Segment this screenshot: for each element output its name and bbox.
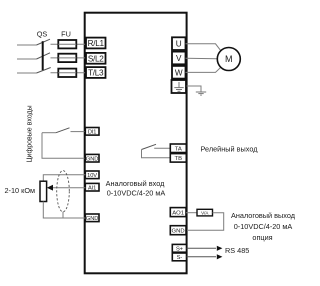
fuse FU1	[58, 40, 76, 48]
wire 10V to pot top	[43, 175, 85, 181]
svg-text:2-10 кОм: 2-10 кОм	[5, 186, 36, 195]
svg-text:M: M	[225, 54, 233, 64]
terminal T/L3	[86, 67, 106, 78]
potentiometer body	[40, 181, 47, 201]
svg-text:S/L2: S/L2	[88, 54, 104, 63]
pot wiper arrow	[47, 185, 53, 191]
svg-text:RS 485: RS 485	[225, 246, 249, 255]
svg-text:Аналоговый вход: Аналоговый вход	[106, 179, 165, 188]
svg-text:GND: GND	[172, 229, 185, 235]
svg-text:0-10VDC/4-20 мА: 0-10VDC/4-20 мА	[107, 188, 166, 197]
svg-text:опция: опция	[252, 233, 272, 242]
label RS 485	[225, 246, 249, 255]
earth ground symbol	[196, 92, 206, 95]
wire fuse row 2	[51, 57, 86, 59]
terminal GND 3	[170, 226, 186, 235]
label QS	[37, 29, 48, 38]
wire DI1 to GND	[42, 133, 86, 159]
switch DI1 blade	[56, 128, 70, 133]
wire S- RS485	[187, 256, 217, 258]
svg-text:V/A: V/A	[201, 210, 208, 215]
svg-text:S-: S-	[177, 255, 183, 261]
switch QS blade 3	[37, 68, 51, 74]
svg-text:Аналоговый выход: Аналоговый выход	[231, 211, 296, 220]
svg-text:TA: TA	[175, 147, 182, 153]
wire V/A to GND	[187, 213, 224, 231]
wire phase 3 left	[17, 72, 37, 74]
label analog output line 3	[252, 233, 272, 242]
svg-text:GND: GND	[86, 216, 98, 222]
terminal PE earth box	[172, 80, 187, 93]
wire relay common to TB	[142, 150, 171, 158]
shield drain wire	[62, 212, 64, 218]
wire V to motor	[186, 57, 218, 59]
wire fuse row 3	[51, 72, 86, 74]
terminal GND 2	[85, 214, 99, 222]
svg-text:W: W	[175, 68, 183, 77]
label analog input line 2	[107, 188, 166, 197]
terminal S+	[172, 244, 186, 252]
fuse FU2	[58, 54, 76, 62]
svg-text:FU: FU	[61, 29, 71, 38]
shield cable ellipse	[57, 171, 70, 212]
wire W to motor	[186, 67, 221, 72]
terminal AO1	[170, 208, 186, 217]
terminal V	[172, 52, 186, 65]
wire DI1 left segment	[42, 132, 56, 134]
terminal W	[172, 66, 186, 79]
terminal TB	[170, 154, 186, 163]
switch QS linkage bar	[42, 41, 44, 70]
VFD main box	[85, 13, 187, 274]
wire AI1 to pot wiper	[52, 187, 86, 189]
svg-text:U: U	[176, 40, 182, 49]
svg-text:QS: QS	[37, 29, 48, 38]
label analog input line 1	[106, 179, 165, 188]
svg-text:TB: TB	[175, 156, 183, 162]
svg-text:S+: S+	[176, 246, 184, 252]
terminal GND 1	[85, 154, 99, 162]
svg-text:GND: GND	[86, 156, 98, 162]
terminal DI1	[85, 128, 99, 136]
relay contact blade	[142, 144, 157, 149]
switch QS blade 1	[37, 39, 51, 45]
label analog output line 2	[234, 222, 293, 231]
label digital inputs (vertical)	[27, 105, 34, 162]
fuse FU3	[58, 69, 76, 77]
wire fuse row 1	[51, 43, 86, 45]
label 2-10 kOhm	[5, 186, 36, 195]
arrow S-	[217, 254, 223, 259]
svg-text:10V: 10V	[87, 173, 97, 179]
svg-text:0-10VDC/4-20 мА: 0-10VDC/4-20 мА	[234, 222, 293, 231]
svg-text:Цифровые входы: Цифровые входы	[27, 105, 34, 162]
svg-text:T/L3: T/L3	[88, 69, 104, 78]
svg-text:Релейный выход: Релейный выход	[201, 145, 259, 154]
svg-text:AO1: AO1	[172, 210, 184, 216]
wire PE to earth	[187, 86, 202, 92]
wire U to motor	[186, 44, 221, 51]
wire pot bottom to GND	[43, 202, 85, 219]
terminal TA	[170, 144, 186, 153]
terminal S/L2	[86, 53, 106, 64]
switch QS blade 2	[37, 53, 51, 59]
terminal 10V	[85, 171, 99, 179]
label relay output	[201, 145, 259, 154]
wire AO1 to V/A meter	[186, 212, 197, 214]
terminal R/L1	[86, 38, 106, 49]
wire S+ RS485	[187, 247, 217, 249]
arrow S+	[217, 246, 223, 251]
svg-text:AI1: AI1	[88, 185, 96, 191]
svg-text:V: V	[176, 54, 182, 63]
motor M	[217, 48, 240, 71]
wire DI1 right segment	[71, 131, 86, 133]
terminal U	[172, 37, 186, 50]
wire TA	[154, 147, 170, 149]
terminal AI1	[85, 183, 99, 191]
label analog output line 1	[231, 211, 296, 220]
terminal S-	[172, 253, 186, 261]
wire phase 1 left	[17, 44, 37, 46]
label FU	[61, 29, 71, 38]
wire phase 2 left	[17, 58, 37, 60]
V/A meter box	[197, 209, 213, 216]
svg-text:DI1: DI1	[88, 129, 97, 135]
svg-text:R/L1: R/L1	[88, 39, 105, 48]
